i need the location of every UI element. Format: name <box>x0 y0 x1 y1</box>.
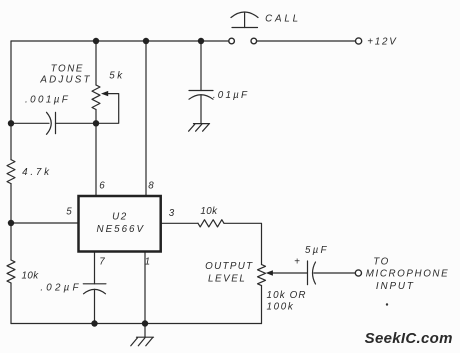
capacitor .01uF top plate <box>189 90 213 92</box>
svg-text:10k: 10k <box>200 206 218 217</box>
wire capacitor to ground <box>200 95 202 124</box>
node left rail at coupling cap <box>8 120 14 126</box>
svg-text:100k: 100k <box>266 301 294 312</box>
wire left vertical mid <box>10 184 12 260</box>
wire capacitor .02uF to bottom rail <box>94 289 96 323</box>
node top rail at pin 8 <box>143 38 149 44</box>
wire 5uF capacitor to microphone terminal <box>314 272 356 274</box>
svg-text:10k OR: 10k OR <box>267 290 307 301</box>
svg-text:1: 1 <box>145 257 150 268</box>
wire top rail down to pin 8 of U2 <box>145 41 147 196</box>
capacitor .001uF straight plate <box>55 112 57 133</box>
wire left vertical bottom <box>10 283 12 324</box>
svg-text:6: 6 <box>99 181 105 192</box>
svg-text:7: 7 <box>99 257 105 268</box>
capacitor .02uF top plate <box>83 283 106 285</box>
node top rail at bypass cap <box>198 38 204 44</box>
svg-text:8: 8 <box>148 181 154 192</box>
capacitor .01uF curved plate <box>189 95 213 100</box>
node left rail at pin 5 <box>8 220 14 226</box>
wire left vertical rail <box>10 41 12 160</box>
svg-text:.01µF: .01µF <box>213 90 249 101</box>
node bottom rail at .02uF <box>91 320 97 326</box>
terminal +12V <box>356 38 362 44</box>
svg-text:5: 5 <box>66 207 72 218</box>
tone pot wiper arrow <box>101 91 108 96</box>
wire bottom rail <box>11 323 262 325</box>
ground under .01uF capacitor <box>194 123 210 125</box>
wire 10k to output level pot <box>224 223 262 264</box>
node top rail at tone pot <box>93 38 99 44</box>
svg-text:3: 3 <box>169 208 175 219</box>
potentiometer OUTPUT LEVEL body <box>258 265 266 286</box>
svg-text:.001µF: .001µF <box>25 94 70 105</box>
IC U1 NE566V box <box>79 196 161 252</box>
terminal to microphone input <box>355 270 361 276</box>
pushbutton CALL cap arc <box>231 12 258 18</box>
svg-text:5k: 5k <box>109 70 125 81</box>
svg-text:OUTPUT: OUTPUT <box>205 261 253 272</box>
pushbutton CALL actuator bar <box>232 27 258 29</box>
wire from top rail down to tone pot <box>95 41 97 85</box>
svg-text:LEVEL: LEVEL <box>208 273 247 284</box>
svg-text:ADJUST: ADJUST <box>39 75 91 86</box>
output pot wiper arrow <box>266 270 273 275</box>
capacitor .02uF curved plate <box>84 289 106 293</box>
svg-text:TONE: TONE <box>51 64 84 75</box>
capacitor .001uF curved plate <box>47 112 52 134</box>
svg-text:SeekIC.com: SeekIC.com <box>365 330 453 347</box>
resistor R 4.7k <box>7 160 15 184</box>
pushbutton CALL left contact <box>229 38 235 44</box>
ground on bottom rail <box>144 324 146 338</box>
wire pot bottom to pin 6 of U2 <box>95 110 97 197</box>
svg-text:5µF: 5µF <box>305 245 329 256</box>
pushbutton CALL stem <box>244 13 246 28</box>
svg-text:.02µF: .02µF <box>40 283 81 294</box>
node bottom rail at pin 1 <box>142 320 148 326</box>
wire output pot wiper to 5uF capacitor <box>271 272 308 274</box>
svg-text:INPUT: INPUT <box>376 281 415 292</box>
capacitor 5uF straight plate <box>307 261 309 285</box>
wire top rail down to bypass capacitor <box>200 41 202 91</box>
wire top rail right segment to +12V <box>257 40 356 42</box>
svg-text:MICROPHONE: MICROPHONE <box>366 268 450 279</box>
potentiometer 5k TONE ADJUST body <box>92 85 100 110</box>
wire tone pot wiper loop <box>96 94 119 124</box>
svg-text:U2: U2 <box>112 212 128 223</box>
node tone pot bottom <box>93 120 99 126</box>
svg-text:10k: 10k <box>22 271 40 282</box>
wire node to pin 5 of U2 <box>11 222 79 224</box>
svg-text:4.7k: 4.7k <box>22 167 52 178</box>
stray dot mark <box>386 303 388 305</box>
wire pin 1 of U2 down to bottom rail <box>144 252 146 324</box>
pushbutton CALL right contact <box>251 38 257 44</box>
resistor 10k output <box>198 220 224 227</box>
svg-text:NE566V: NE566V <box>97 224 146 235</box>
svg-text:+12V: +12V <box>367 37 397 48</box>
wire pin 3 of U2 to 10k <box>161 222 198 224</box>
wire pot bottom to bottom rail <box>261 286 263 324</box>
svg-text:TO: TO <box>373 257 389 268</box>
svg-text:+: + <box>294 257 300 268</box>
wire capacitor to tone pot node <box>56 122 97 124</box>
resistor 10k lower left <box>7 260 15 283</box>
wire horizontal with coupling capacitor <box>11 122 49 124</box>
svg-text:CALL: CALL <box>265 13 301 24</box>
wire top rail left segment <box>11 40 229 42</box>
capacitor 5uF curved plate <box>313 262 316 284</box>
wire pin 7 of U2 down to capacitor <box>94 252 96 284</box>
